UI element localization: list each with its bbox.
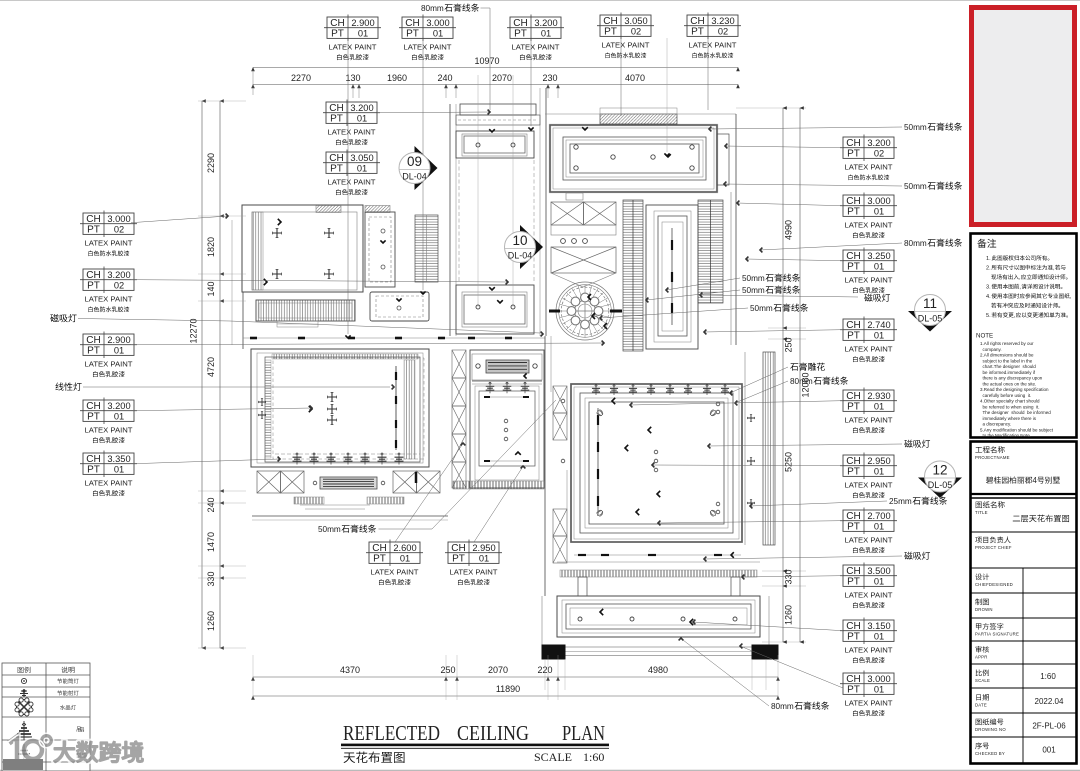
svg-text:PT: PT	[514, 29, 527, 40]
svg-text:01: 01	[541, 29, 551, 39]
left overall dimension 12270	[201, 101, 203, 648]
room A left hatch strip	[252, 212, 263, 290]
svg-text:CH: CH	[846, 138, 860, 149]
chandelier ceiling medallion	[556, 282, 614, 340]
svg-text:CH: CH	[329, 153, 343, 164]
svg-text:4.Other specialty chart should: 4.Other specialty chart should	[980, 399, 1040, 404]
legend downlight symbol	[21, 678, 26, 683]
svg-text:2.900: 2.900	[351, 18, 374, 28]
svg-text:CH: CH	[86, 335, 100, 346]
svg-text:PLAN: PLAN	[562, 721, 605, 745]
svg-text:CH: CH	[846, 456, 860, 467]
svg-text:The designer should be infor: The designer should be informed	[980, 410, 1051, 415]
room A top-left bedroom outline	[242, 205, 363, 292]
svg-text:240: 240	[206, 497, 216, 512]
room A top wall hatch blocks	[316, 206, 341, 213]
ceiling tag CH 2.740 / PT 01	[840, 317, 897, 363]
right leader lines	[709, 127, 902, 129]
svg-text:250: 250	[784, 337, 794, 352]
svg-text:10: 10	[512, 233, 527, 248]
svg-text:3.200: 3.200	[350, 103, 373, 113]
svg-text:PT: PT	[331, 29, 344, 40]
svg-text:01: 01	[358, 29, 368, 39]
watermark logo 100	[7, 733, 144, 767]
svg-text:4: 4	[1033, 476, 1038, 485]
svg-text:CH: CH	[451, 543, 465, 554]
ceiling tag CH 2.900 / PT 01	[80, 332, 137, 378]
svg-text:80mm: 80mm	[771, 702, 794, 711]
terrace edge lines	[565, 646, 752, 648]
callout 磁吸灯	[864, 294, 890, 302]
svg-text:PT: PT	[87, 465, 100, 476]
svg-text:LATEX PAINT: LATEX PAINT	[371, 567, 419, 576]
bottom extension lines	[252, 655, 254, 700]
hall door line	[243, 337, 545, 339]
check row	[976, 646, 990, 653]
svg-text:LATEX PAINT: LATEX PAINT	[845, 645, 893, 654]
svg-text:1260: 1260	[206, 611, 216, 631]
ceiling tag CH 2.900 / PT 01	[324, 15, 381, 61]
ceiling tag CH 3.230 / PT 02	[684, 13, 741, 59]
svg-text:to the Modification Note.: to the Modification Note.	[980, 433, 1031, 438]
svg-text:2.950: 2.950	[472, 543, 495, 553]
svg-text:50mm: 50mm	[742, 286, 765, 295]
legend header 说明	[61, 667, 74, 674]
svg-text:02: 02	[631, 27, 641, 37]
svg-text:1:60: 1:60	[1040, 672, 1056, 681]
top hatch strip	[600, 114, 677, 124]
svg-text:80mm: 80mm	[790, 377, 813, 386]
svg-text:4720: 4720	[206, 357, 216, 377]
svg-text:01: 01	[874, 577, 884, 587]
svg-text:the actual ones on the site.: the actual ones on the site.	[980, 381, 1036, 386]
svg-text:01: 01	[357, 114, 367, 124]
ceiling tag CH 2.950 / PT 01	[445, 540, 502, 586]
ceiling tag CH 3.000 / PT 01	[399, 15, 456, 61]
draftsman row	[975, 598, 989, 605]
svg-text:PT: PT	[847, 331, 860, 342]
svg-text:CHIEFDESIGNED: CHIEFDESIGNED	[975, 582, 1013, 587]
svg-text:01: 01	[114, 346, 124, 356]
left leader lines	[131, 216, 228, 223]
svg-text:DROWN: DROWN	[975, 607, 993, 612]
svg-text:LATEX PAINT: LATEX PAINT	[845, 480, 893, 489]
svg-text:TITLE: TITLE	[975, 510, 988, 515]
curtain track	[597, 408, 599, 516]
leader lines from top tags	[347, 40, 349, 334]
ceiling tag CH 3.200 / PT 02	[840, 135, 897, 181]
svg-text:company.: company.	[980, 347, 1002, 352]
ceiling tag CH 3.200 / PT 02	[80, 267, 137, 313]
alignment droplines	[477, 75, 479, 307]
svg-text:250: 250	[440, 665, 455, 675]
svg-text:1:60: 1:60	[583, 750, 604, 764]
svg-text:CH: CH	[846, 196, 860, 207]
svg-text:50mm: 50mm	[904, 123, 927, 132]
svg-text:12270: 12270	[189, 318, 199, 343]
legend fan symbol	[16, 721, 32, 740]
svg-text:02: 02	[114, 225, 124, 235]
ceiling tag CH 3.200 / PT 01	[80, 398, 137, 444]
TV wall boxes	[257, 471, 281, 493]
svg-text:LATEX PAINT: LATEX PAINT	[85, 238, 133, 247]
svg-text:CH: CH	[846, 511, 860, 522]
title underline	[341, 744, 609, 747]
ceiling tag CH 2.700 / PT 01	[840, 508, 897, 554]
svg-text:CH: CH	[86, 270, 100, 281]
svg-text:PT: PT	[87, 281, 100, 292]
svg-text:LATEX PAINT: LATEX PAINT	[845, 344, 893, 353]
svg-text:CH: CH	[405, 18, 419, 29]
stair block	[551, 202, 584, 225]
ceiling tag CH 3.150 / PT 01	[840, 618, 897, 664]
svg-text:50mm: 50mm	[742, 274, 765, 283]
linear light label left	[55, 382, 81, 390]
svg-text:LATEX PAINT: LATEX PAINT	[845, 535, 893, 544]
svg-text:CH: CH	[86, 214, 100, 225]
svg-text:immediately where there is: immediately where there is	[980, 416, 1037, 421]
ceiling tag CH 3.000 / PT 01	[840, 671, 897, 717]
watermark text 大数跨境	[54, 741, 143, 762]
corridor dashed wall lines	[458, 160, 460, 283]
right overall dimension 12080	[799, 108, 801, 642]
top overall dimension 10970	[253, 67, 738, 69]
corridor top cap	[460, 104, 536, 115]
svg-text:4990: 4990	[784, 220, 794, 240]
living room outline	[251, 349, 429, 467]
svg-text:4980: 4980	[648, 665, 668, 675]
svg-text:LATEX PAINT: LATEX PAINT	[328, 127, 376, 136]
svg-text:CH: CH	[86, 401, 100, 412]
svg-text:2290: 2290	[206, 153, 216, 173]
svg-text:LATEX PAINT: LATEX PAINT	[404, 42, 452, 51]
bottom overall dimension 11890	[253, 695, 778, 697]
notes heading 备注	[977, 239, 996, 248]
revision cloud red box (empty)	[972, 8, 1075, 225]
svg-text:1.All rights reserved by our: 1.All rights reserved by our	[980, 341, 1034, 346]
corridor walls	[449, 104, 451, 336]
svg-text:1260: 1260	[784, 605, 794, 625]
svg-text:5250: 5250	[784, 452, 794, 472]
title chinese 天花布置图	[344, 752, 405, 764]
svg-text:3.050: 3.050	[624, 16, 647, 26]
column left	[542, 645, 565, 659]
project name row	[975, 446, 1004, 453]
svg-text:PROJECT CHIEF: PROJECT CHIEF	[975, 545, 1012, 550]
svg-text:01: 01	[874, 685, 884, 695]
svg-text:3.200: 3.200	[107, 270, 130, 280]
callout 石膏雕花	[790, 363, 825, 371]
steps below TV wall	[300, 504, 370, 506]
svg-text:3.230: 3.230	[711, 16, 734, 26]
svg-text:LATEX PAINT: LATEX PAINT	[85, 425, 133, 434]
kitchen fans	[472, 380, 542, 382]
svg-text:01: 01	[874, 632, 884, 642]
svg-text:1.: 1.	[986, 256, 991, 262]
svg-text:LATEX PAINT: LATEX PAINT	[845, 698, 893, 707]
svg-text:LATEX PAINT: LATEX PAINT	[329, 42, 377, 51]
ladder hatch panel	[415, 215, 438, 282]
watermark gray bar	[3, 759, 43, 770]
svg-text:PT: PT	[87, 225, 100, 236]
svg-text:LATEX PAINT: LATEX PAINT	[845, 162, 893, 171]
svg-text:3.: 3.	[986, 285, 991, 291]
callout 磁吸灯	[904, 552, 930, 560]
svg-text:01: 01	[114, 412, 124, 422]
svg-text:carefully before using it.: carefully before using it.	[980, 393, 1031, 398]
section marker 10 DL-04	[505, 225, 544, 269]
kitchen room	[470, 350, 544, 488]
svg-text:3.200: 3.200	[534, 18, 557, 28]
svg-text:230: 230	[542, 73, 557, 83]
living room top hatch band	[272, 354, 418, 359]
svg-text:4.: 4.	[986, 294, 991, 300]
svg-text:PT: PT	[691, 27, 704, 38]
svg-text:PT: PT	[87, 412, 100, 423]
ceiling tag CH 3.000 / PT 02	[80, 211, 137, 257]
hall dots	[561, 399, 565, 403]
svg-text:50mm: 50mm	[318, 525, 341, 534]
svg-text:PT: PT	[847, 522, 860, 533]
svg-text:3.050: 3.050	[350, 153, 373, 163]
svg-text:SCALE: SCALE	[534, 750, 572, 764]
living room right hatch band	[404, 360, 415, 459]
svg-text:3.Read the designing specifica: 3.Read the designing specification	[980, 387, 1049, 392]
svg-text:2022.04: 2022.04	[1035, 697, 1064, 706]
svg-text:PT: PT	[847, 207, 860, 218]
svg-text:LATEX PAINT: LATEX PAINT	[85, 359, 133, 368]
svg-text:80mm: 80mm	[904, 239, 927, 248]
room B closet	[365, 212, 395, 287]
svg-text:chart.The designer should: chart.The designer should	[980, 364, 1036, 369]
svg-text:CH: CH	[846, 621, 860, 632]
svg-text:PROJECTNAME: PROJECTNAME	[975, 455, 1010, 460]
svg-text:LATEX PAINT: LATEX PAINT	[328, 177, 376, 186]
living curtain track	[395, 366, 397, 450]
svg-text:LATEX PAINT: LATEX PAINT	[845, 590, 893, 599]
ceiling tag CH 3.000 / PT 01	[840, 193, 897, 239]
svg-text:PT: PT	[847, 685, 860, 696]
page bottom border	[0, 769, 1080, 771]
svg-text:11: 11	[923, 296, 937, 311]
page top border	[0, 0, 1080, 2]
section marker 11 DL-05	[908, 295, 952, 332]
legend table	[2, 663, 90, 771]
svg-text:2.930: 2.930	[867, 391, 890, 401]
svg-text:LATEX PAINT: LATEX PAINT	[845, 220, 893, 229]
ceiling tag CH 2.950 / PT 01	[840, 453, 897, 499]
ceiling tag CH 2.600 / PT 01	[366, 540, 423, 586]
svg-text:3.000: 3.000	[426, 18, 449, 28]
svg-text:PT: PT	[330, 114, 343, 125]
svg-text:LATEX PAINT: LATEX PAINT	[85, 294, 133, 303]
svg-text:DL-04: DL-04	[402, 172, 427, 182]
svg-text:50mm: 50mm	[904, 182, 927, 191]
top segment dimensions	[253, 84, 738, 86]
room A air diffusers	[273, 229, 282, 238]
family room sprinkler row	[592, 384, 600, 395]
ceiling tag CH 2.930 / PT 01	[840, 388, 897, 434]
svg-text:01: 01	[874, 331, 884, 341]
svg-text:2.: 2.	[986, 266, 991, 272]
svg-text:2070: 2070	[492, 73, 512, 83]
svg-text:1820: 1820	[206, 237, 216, 257]
svg-text:PT: PT	[330, 164, 343, 175]
svg-text:DATE: DATE	[975, 703, 987, 708]
svg-text:2.700: 2.700	[867, 511, 890, 521]
svg-text:25mm: 25mm	[889, 497, 912, 506]
title block row lines	[971, 494, 1077, 764]
project chief row	[975, 536, 1010, 543]
svg-text:a discrepancy.: a discrepancy.	[980, 422, 1011, 427]
svg-text:3.250: 3.250	[867, 251, 890, 261]
hatch strip F	[698, 200, 723, 303]
serial row	[975, 742, 989, 749]
svg-text:80mm: 80mm	[421, 4, 444, 13]
ceiling tag CH 3.500 / PT 01	[840, 563, 897, 609]
svg-text:LATEX PAINT: LATEX PAINT	[689, 40, 737, 49]
ceiling tag CH 3.200 / PT 01	[323, 100, 380, 146]
svg-text:2F-PL-06: 2F-PL-06	[1032, 722, 1066, 731]
svg-text:130: 130	[345, 73, 360, 83]
svg-text:PT: PT	[452, 554, 465, 565]
svg-text:LATEX PAINT: LATEX PAINT	[512, 42, 560, 51]
plan top boundary	[545, 113, 736, 115]
date row	[976, 694, 989, 701]
title block frame	[971, 442, 1077, 764]
svg-text:CH: CH	[603, 16, 617, 27]
left extension lines	[198, 100, 246, 102]
svg-text:REFLECTED: REFLECTED	[343, 721, 440, 745]
room C downlights	[574, 145, 578, 149]
ceiling tag CH 3.200 / PT 01	[507, 15, 564, 61]
svg-text:DL-04: DL-04	[508, 251, 533, 261]
ceiling tag CH 3.050 / PT 02	[597, 13, 654, 59]
right segment dimensions	[782, 108, 784, 642]
svg-text:5.: 5.	[986, 313, 991, 319]
svg-text:there is any discrepancy upon: there is any discrepancy upon	[980, 376, 1043, 381]
center room E	[646, 205, 698, 349]
legend spotlight symbol	[20, 689, 28, 697]
main title REFLECTED CEILING PLAN	[343, 721, 605, 745]
svg-text:3.000: 3.000	[107, 214, 130, 224]
svg-text:PT: PT	[406, 29, 419, 40]
left segment dimensions	[219, 101, 221, 648]
svg-text:3.200: 3.200	[867, 138, 890, 148]
svg-text:LATEX PAINT: LATEX PAINT	[450, 567, 498, 576]
svg-text:CH: CH	[846, 251, 860, 262]
svg-text:2070: 2070	[488, 665, 508, 675]
svg-text:LATEX PAINT: LATEX PAINT	[85, 478, 133, 487]
svg-text:PT: PT	[847, 402, 860, 413]
svg-text:09: 09	[407, 154, 422, 169]
svg-text:LATEX PAINT: LATEX PAINT	[845, 415, 893, 424]
svg-text:CH: CH	[846, 566, 860, 577]
notes block frame	[971, 234, 1077, 438]
ceiling tag CH 3.250 / PT 01	[840, 248, 897, 294]
svg-text:CHECKED BY: CHECKED BY	[975, 751, 1005, 756]
svg-text:LATEX PAINT: LATEX PAINT	[845, 275, 893, 284]
ceiling tag CH 3.350 / PT 01	[80, 451, 137, 497]
drawing number row	[976, 718, 1004, 725]
svg-text:LATEX PAINT: LATEX PAINT	[602, 40, 650, 49]
svg-text:2.900: 2.900	[107, 335, 130, 345]
svg-text:2.All dimensions should be: 2.All dimensions should be	[980, 353, 1034, 358]
svg-text:DROWING NO: DROWING NO	[975, 727, 1006, 732]
svg-text:CH: CH	[86, 454, 100, 465]
svg-text:PT: PT	[847, 577, 860, 588]
bottom leaders from tags	[395, 445, 462, 542]
drawing title row	[976, 501, 1005, 508]
svg-text:APPR: APPR	[975, 655, 988, 660]
svg-text:CH: CH	[690, 16, 704, 27]
svg-text:01: 01	[874, 207, 884, 217]
svg-text:CH: CH	[372, 543, 386, 554]
svg-text:02: 02	[874, 149, 884, 159]
svg-text:10970: 10970	[474, 56, 499, 66]
hall X strip	[553, 509, 567, 536]
family room border	[571, 384, 742, 542]
family room downlights	[654, 450, 658, 454]
svg-text:DL-05: DL-05	[918, 314, 943, 324]
svg-text:330: 330	[784, 569, 794, 584]
svg-text:be referred to when using it.: be referred to when using it.	[980, 404, 1040, 409]
section marker 09 DL-04	[399, 146, 438, 190]
legend crystal lamp symbol	[15, 698, 33, 716]
svg-text:001: 001	[1042, 746, 1056, 755]
svg-text:CH: CH	[330, 18, 344, 29]
svg-text:PT: PT	[847, 262, 860, 273]
svg-text:3.500: 3.500	[867, 566, 890, 576]
svg-text:CH: CH	[513, 18, 527, 29]
svg-text:02: 02	[718, 27, 728, 37]
svg-text:PT: PT	[847, 467, 860, 478]
svg-text:4370: 4370	[340, 665, 360, 675]
svg-text:CH: CH	[846, 320, 860, 331]
svg-text:1960: 1960	[387, 73, 407, 83]
signature row	[976, 623, 1003, 630]
svg-text:140: 140	[206, 281, 216, 296]
svg-text:NOTE: NOTE	[976, 333, 993, 340]
ceiling tag CH 3.050 / PT 01	[323, 150, 380, 196]
svg-text:3.350: 3.350	[107, 454, 130, 464]
pilasters	[578, 577, 587, 596]
corner ornaments	[597, 410, 603, 416]
living room diffusers	[258, 398, 265, 405]
bottom segment dimensions	[253, 676, 778, 678]
svg-text:CH: CH	[846, 674, 860, 685]
svg-text:330: 330	[206, 571, 216, 586]
column right	[752, 645, 778, 659]
svg-text:4070: 4070	[625, 73, 645, 83]
svg-text:01: 01	[400, 554, 410, 564]
svg-text:01: 01	[874, 522, 884, 532]
room C master bedroom border	[550, 125, 717, 192]
section marker 12 DL-05	[918, 461, 962, 498]
svg-text:PT: PT	[847, 632, 860, 643]
svg-text:1470: 1470	[206, 532, 216, 552]
designer row	[975, 573, 989, 580]
svg-text:subject to the label in the: subject to the label in the	[980, 358, 1033, 363]
legend extra row symbol	[18, 744, 30, 760]
svg-text:3.150: 3.150	[867, 621, 890, 631]
svg-text:01: 01	[479, 554, 489, 564]
living room left hatch band	[265, 360, 271, 458]
svg-text:01: 01	[874, 262, 884, 272]
svg-text:5.Any modification should be s: 5.Any modification should be subject	[980, 427, 1054, 432]
callout 磁吸灯	[904, 440, 930, 448]
svg-text:240: 240	[437, 73, 452, 83]
